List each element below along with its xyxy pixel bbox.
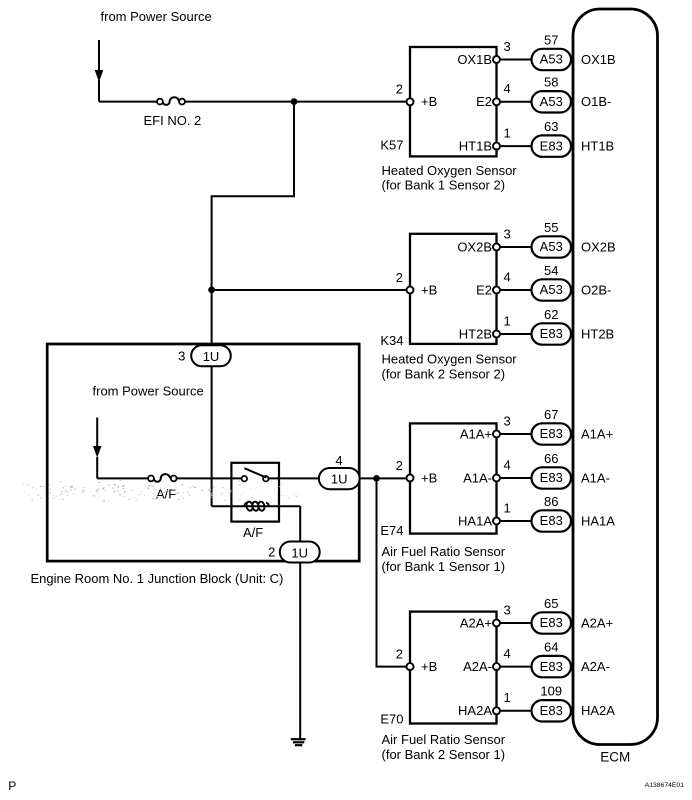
svg-text:Air Fuel Ratio Sensor: Air Fuel Ratio Sensor: [382, 544, 506, 559]
svg-text:A2A-: A2A-: [463, 659, 492, 674]
svg-text:E83: E83: [540, 659, 563, 674]
svg-text:Heated Oxygen Sensor: Heated Oxygen Sensor: [382, 163, 518, 178]
pin circle K34 pin 2 (+B): [407, 287, 414, 294]
connector E70 box: [410, 612, 497, 724]
ECM terminal oval E83 (pin 86): [532, 510, 572, 531]
pin circle E70 pin 3 (A2A+): [493, 620, 500, 627]
svg-text:55: 55: [544, 220, 558, 235]
svg-text:A53: A53: [540, 52, 563, 67]
svg-text:62: 62: [544, 307, 558, 322]
svg-text:3: 3: [504, 413, 511, 428]
wire: E70 pin 1 to ECM oval: [497, 710, 532, 712]
wire: E74 pin 4 to ECM oval: [497, 477, 532, 479]
svg-text:A1A-: A1A-: [463, 470, 492, 485]
svg-text:ECM: ECM: [600, 750, 630, 765]
fuse A/F: [148, 474, 177, 482]
wire: K34 pin 3 to ECM oval: [497, 246, 532, 248]
pin circle K57 pin 3 (OX1B): [493, 56, 500, 63]
ECM terminal oval E83 (pin 65): [532, 612, 572, 633]
svg-text:K34: K34: [380, 333, 403, 348]
pin circle E70 pin 1 (HA2A): [493, 707, 500, 714]
svg-text:2: 2: [396, 646, 403, 661]
svg-text:A/F: A/F: [243, 525, 263, 540]
wire: contact to pin 4 oval: [268, 477, 320, 479]
pin circle K34 pin 1 (HT2B): [493, 331, 500, 338]
svg-text:OX2B: OX2B: [457, 239, 492, 254]
svg-text:HT1B: HT1B: [459, 139, 492, 154]
svg-text:E2: E2: [476, 282, 492, 297]
wire: K57 pin 1 to ECM oval: [497, 145, 532, 147]
svg-text:1U: 1U: [291, 545, 308, 560]
svg-text:K57: K57: [380, 137, 403, 152]
wire: K57 pin 3 to ECM oval: [497, 59, 532, 61]
svg-text:1: 1: [504, 500, 511, 515]
svg-text:E83: E83: [540, 426, 563, 441]
svg-text:1: 1: [504, 126, 511, 141]
svg-text:4: 4: [504, 269, 511, 284]
pin circle E70 pin 2 (+B): [407, 663, 414, 670]
svg-text:2: 2: [268, 545, 275, 560]
svg-text:86: 86: [544, 494, 558, 509]
ECM terminal oval E83 (pin 62): [532, 323, 572, 344]
svg-text:O1B-: O1B-: [581, 94, 611, 109]
svg-text:E2: E2: [476, 94, 492, 109]
pin circle K57 pin 2 (+B): [407, 98, 414, 105]
svg-text:67: 67: [544, 407, 558, 422]
relay A/F box: [231, 463, 279, 522]
svg-text:A53: A53: [540, 94, 563, 109]
wire: feed down to K34 branch: [212, 102, 294, 290]
svg-text:(for Bank 1 Sensor 2): (for Bank 1 Sensor 2): [382, 178, 506, 193]
svg-text:1U: 1U: [331, 472, 348, 487]
svg-text:4: 4: [504, 81, 511, 96]
svg-text:E83: E83: [540, 138, 563, 153]
wire: fuse to relay contact: [177, 477, 242, 479]
ECM connector body: [573, 9, 658, 745]
svg-text:HT2B: HT2B: [581, 326, 614, 341]
svg-text:4: 4: [504, 646, 511, 661]
svg-text:1: 1: [504, 313, 511, 328]
svg-text:(for Bank 1 Sensor 1): (for Bank 1 Sensor 1): [382, 559, 506, 574]
ground: [291, 739, 306, 745]
ECM terminal oval A53 (pin 55): [532, 236, 572, 257]
connector K57 box: [410, 47, 497, 156]
junction block: Engine Room No. 1 Junction Block (Unit: C): [47, 344, 359, 561]
svg-text:Air Fuel Ratio Sensor: Air Fuel Ratio Sensor: [382, 732, 506, 747]
ECM terminal oval E83 (pin 64): [532, 656, 572, 677]
svg-text:A1A-: A1A-: [581, 470, 610, 485]
svg-text:A138674E01: A138674E01: [645, 782, 685, 789]
svg-text:HA1A: HA1A: [458, 513, 492, 528]
svg-text:HT2B: HT2B: [459, 326, 492, 341]
svg-text:57: 57: [544, 32, 558, 47]
wire: E70 pin 4 to ECM oval: [497, 666, 532, 668]
junction dot B (K34 branch): [208, 287, 215, 294]
junction dot A (main feed split): [291, 98, 298, 105]
wire: coil to pin 2 oval and ground: [299, 506, 301, 740]
junction block pin 3 (1U): [178, 345, 231, 366]
svg-text:54: 54: [544, 263, 558, 278]
svg-text:(for Bank 2 Sensor 1): (for Bank 2 Sensor 1): [382, 747, 506, 762]
svg-text:from Power Source: from Power Source: [93, 384, 204, 399]
svg-text:A2A+: A2A+: [460, 615, 492, 630]
pin circle E74 pin 2 (+B): [407, 475, 414, 482]
wire: to K34 +B: [212, 289, 407, 291]
svg-text:Heated Oxygen Sensor: Heated Oxygen Sensor: [382, 352, 518, 367]
svg-text:HA2A: HA2A: [458, 703, 492, 718]
junction block pin 4 (1U): [319, 453, 360, 489]
wire: fuse to K57 +B: [185, 101, 407, 103]
wire: K57 pin 4 to ECM oval: [497, 101, 532, 103]
pin circle E74 pin 3 (A1A+): [493, 431, 500, 438]
svg-text:OX1B: OX1B: [457, 52, 492, 67]
wire: pin 4 to E74 +B: [360, 477, 407, 479]
svg-text:3: 3: [504, 602, 511, 617]
svg-text:E74: E74: [380, 523, 403, 538]
svg-text:from Power Source: from Power Source: [101, 9, 212, 24]
svg-text:HA1A: HA1A: [581, 513, 615, 528]
svg-text:A2A+: A2A+: [581, 615, 613, 630]
wire: E70 pin 3 to ECM oval: [497, 622, 532, 624]
svg-text:58: 58: [544, 75, 558, 90]
svg-text:O2B-: O2B-: [581, 282, 611, 297]
ECM terminal oval E83 (pin 109): [532, 700, 572, 721]
pin circle K34 pin 3 (OX2B): [493, 244, 500, 251]
svg-text:E83: E83: [540, 703, 563, 718]
svg-text:4: 4: [504, 457, 511, 472]
wire: power drop with arrow (junction block): [93, 418, 148, 479]
pin circle K34 pin 4 (E2): [493, 287, 500, 294]
svg-text:3: 3: [504, 39, 511, 54]
wire: K34 pin 4 to ECM oval: [497, 289, 532, 291]
wire: E74 pin 3 to ECM oval: [497, 433, 532, 435]
junction block pin 2 (1U): [268, 542, 320, 563]
pin circle K57 pin 4 (E2): [493, 98, 500, 105]
ECM terminal oval E83 (pin 66): [532, 467, 572, 488]
ECM terminal oval A53 (pin 58): [532, 91, 572, 112]
svg-text:+B: +B: [421, 470, 437, 485]
svg-text:E83: E83: [540, 513, 563, 528]
svg-text:66: 66: [544, 451, 558, 466]
svg-text:2: 2: [396, 458, 403, 473]
svg-text:1U: 1U: [203, 349, 220, 364]
ECM terminal oval A53 (pin 54): [532, 279, 572, 300]
svg-text:4: 4: [335, 453, 342, 468]
svg-text:A1A+: A1A+: [581, 426, 613, 441]
pin circle E74 pin 4 (A1A-): [493, 475, 500, 482]
svg-text:(for Bank 2 Sensor 2): (for Bank 2 Sensor 2): [382, 367, 506, 382]
connector K34 box: [410, 234, 497, 344]
svg-text:2: 2: [396, 82, 403, 97]
svg-text:E83: E83: [540, 615, 563, 630]
svg-text:A1A+: A1A+: [460, 426, 492, 441]
pin circle E70 pin 4 (A2A-): [493, 663, 500, 670]
fuse EFI NO. 2: [157, 97, 185, 105]
svg-text:OX2B: OX2B: [581, 239, 616, 254]
svg-text:+B: +B: [421, 94, 437, 109]
ECM terminal oval A53 (pin 57): [532, 49, 572, 70]
svg-text:A/F: A/F: [156, 487, 176, 502]
svg-text:+B: +B: [421, 659, 437, 674]
svg-text:65: 65: [544, 596, 558, 611]
svg-text:HA2A: HA2A: [581, 703, 615, 718]
wire: power drop with arrow: [95, 40, 157, 102]
svg-text:OX1B: OX1B: [581, 52, 616, 67]
svg-text:HT1B: HT1B: [581, 139, 614, 154]
svg-text:3: 3: [178, 349, 185, 364]
svg-text:2: 2: [396, 270, 403, 285]
svg-text:E83: E83: [540, 326, 563, 341]
wire: E74 pin 1 to ECM oval: [497, 520, 532, 522]
wire: down into junction block pin 3: [211, 290, 213, 506]
svg-text:A53: A53: [540, 282, 563, 297]
svg-text:+B: +B: [421, 282, 437, 297]
svg-text:E83: E83: [540, 470, 563, 485]
svg-text:64: 64: [544, 639, 558, 654]
svg-text:EFI NO. 2: EFI NO. 2: [144, 113, 202, 128]
svg-text:3: 3: [504, 226, 511, 241]
svg-text:A2A-: A2A-: [581, 659, 610, 674]
svg-text:1: 1: [504, 690, 511, 705]
pin circle K57 pin 1 (HT1B): [493, 143, 500, 150]
svg-text:E70: E70: [380, 711, 403, 726]
ECM terminal oval E83 (pin 67): [532, 423, 572, 444]
svg-text:63: 63: [544, 119, 558, 134]
connector E74 box: [410, 423, 497, 533]
relay coil: [212, 501, 301, 511]
relay contact (switch): [242, 468, 269, 481]
svg-text:Engine Room No. 1 Junction Blo: Engine Room No. 1 Junction Block (Unit: …: [31, 571, 284, 586]
svg-text:P: P: [8, 779, 16, 793]
pin circle E74 pin 1 (HA1A): [493, 518, 500, 525]
wire: K34 pin 1 to ECM oval: [497, 333, 532, 335]
scan noise speckle (decorative): [23, 480, 299, 502]
junction dot C (air-fuel feed split): [373, 475, 380, 482]
ECM terminal oval E83 (pin 63): [532, 135, 572, 156]
wire: down to E70 +B: [377, 478, 407, 666]
svg-text:109: 109: [540, 684, 562, 699]
svg-text:A53: A53: [540, 239, 563, 254]
